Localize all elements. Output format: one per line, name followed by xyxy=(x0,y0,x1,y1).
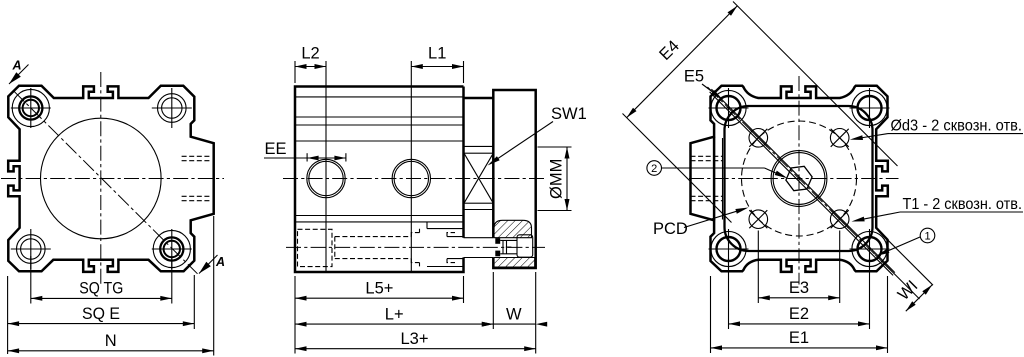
svg-text:N: N xyxy=(105,332,117,350)
main horizontal centerline xyxy=(283,178,545,180)
rear bolt hole top-left xyxy=(709,88,749,128)
right view: rear face xyxy=(689,76,899,285)
dimension L3+ xyxy=(295,330,536,351)
dimension N xyxy=(8,216,214,356)
rear bolt hole bottom-right xyxy=(850,229,890,269)
svg-text:2: 2 xyxy=(651,163,657,175)
dimension E3 xyxy=(758,231,839,304)
svg-text:1: 1 xyxy=(924,231,930,243)
port 2 circle xyxy=(392,159,430,197)
rod diameter lines xyxy=(464,145,493,147)
dimension L5+ xyxy=(295,276,464,354)
svg-text:SW1: SW1 xyxy=(551,105,587,123)
label E5 with leader xyxy=(684,68,723,100)
rod end hexagon socket xyxy=(786,166,812,190)
bolt hole top-left (counterbore) xyxy=(11,88,51,128)
nut section hatching xyxy=(494,220,532,237)
hidden tie-rod dashed lines xyxy=(335,237,412,259)
body tangent lines xyxy=(295,96,464,98)
right view body outline xyxy=(691,86,888,272)
dimension E1 xyxy=(711,276,888,353)
PCD mounting holes xyxy=(749,129,768,148)
svg-text:PCD: PCD xyxy=(653,220,688,238)
port 1 circle (EE) xyxy=(307,159,345,197)
svg-text:E5: E5 xyxy=(684,68,704,86)
svg-text:EE: EE xyxy=(264,140,286,158)
dimension ØMM xyxy=(538,147,572,211)
svg-text:A: A xyxy=(215,255,225,269)
middle view: side view / part section xyxy=(283,61,545,272)
svg-text:Ød3 - 2 сквозн. отв.: Ød3 - 2 сквозн. отв. xyxy=(891,118,1023,135)
svg-text:SQ E: SQ E xyxy=(82,305,120,323)
svg-text:A: A xyxy=(11,59,21,73)
section arrow A (bottom-right) xyxy=(199,255,218,274)
label PCD with leader xyxy=(653,208,749,239)
svg-text:E3: E3 xyxy=(789,279,809,297)
port centerline 2 xyxy=(410,61,412,272)
svg-text:SQ TG: SQ TG xyxy=(79,280,123,298)
rear bolt hole top-right xyxy=(850,88,890,128)
svg-text:T1 - 2 сквозн. отв.: T1 - 2 сквозн. отв. xyxy=(903,196,1023,213)
svg-text:L2: L2 xyxy=(301,45,319,63)
left view: front face of compact cylinder xyxy=(1,59,225,285)
vertical centerline xyxy=(798,76,800,285)
balloon 2 with leader xyxy=(647,161,788,179)
section diagonal A-A xyxy=(14,91,198,274)
port centerline 1 xyxy=(325,61,327,272)
side boss tangent xyxy=(722,138,724,220)
svg-text:L+: L+ xyxy=(385,305,404,323)
hidden cavity dashed box xyxy=(298,229,333,266)
bolt hole top-right xyxy=(152,88,192,128)
svg-text:W: W xyxy=(506,305,522,323)
dimension E2 xyxy=(729,258,870,329)
inner rounded square profile xyxy=(725,106,873,251)
svg-text:E2: E2 xyxy=(789,305,809,323)
hidden port lines in side boss xyxy=(691,155,723,157)
retaining washer (filled) xyxy=(495,238,500,244)
svg-text:ØMM: ØMM xyxy=(548,159,566,199)
dimension L+ xyxy=(295,272,493,329)
svg-text:L5+: L5+ xyxy=(365,279,393,297)
PCD dashed circle xyxy=(742,121,857,236)
rear bolt hole bottom-left xyxy=(709,229,749,269)
end boss block xyxy=(493,90,535,268)
dimension L2 xyxy=(295,45,326,84)
diagonal centerline xyxy=(708,87,895,274)
label T1 with leader xyxy=(852,196,1024,222)
screw shank xyxy=(500,239,517,241)
lower section centerline xyxy=(286,246,545,248)
double diagonal through corner holes xyxy=(710,92,894,276)
body block outline xyxy=(295,87,493,273)
dimension W xyxy=(482,272,547,354)
bolt hole bottom-right (counterbore) xyxy=(152,229,192,269)
horizontal centerline xyxy=(689,178,899,180)
svg-text:E1: E1 xyxy=(789,329,809,347)
horizontal centerline xyxy=(1,178,224,180)
dimension SQ TG xyxy=(31,256,172,304)
dimension W1 (diagonal) xyxy=(875,240,933,312)
hidden port thread lines (right boss) xyxy=(182,155,211,157)
vertical centerline xyxy=(100,72,102,284)
label Od3 with leader xyxy=(850,118,1023,141)
svg-text:L3+: L3+ xyxy=(401,330,429,348)
svg-text:L1: L1 xyxy=(428,45,446,63)
balloon 1 with leader xyxy=(877,228,935,256)
side boss edge line xyxy=(713,137,716,221)
bushing solid lines xyxy=(427,222,464,267)
hex nut head xyxy=(517,235,533,257)
rod lower section lines xyxy=(464,237,494,239)
bore circle xyxy=(41,118,162,239)
bolt hole bottom-left xyxy=(11,229,51,269)
dimension SQ E xyxy=(8,275,195,354)
port size label EE xyxy=(264,140,346,162)
section arrow A (top-left) xyxy=(9,65,29,85)
left view body outline xyxy=(8,86,214,272)
label SW1 with leader xyxy=(488,105,587,166)
rod flats box SW1 xyxy=(464,153,493,203)
dimension L1 xyxy=(411,45,463,84)
center boss circles xyxy=(771,151,827,207)
dimension E4 (diagonal) xyxy=(623,2,898,223)
